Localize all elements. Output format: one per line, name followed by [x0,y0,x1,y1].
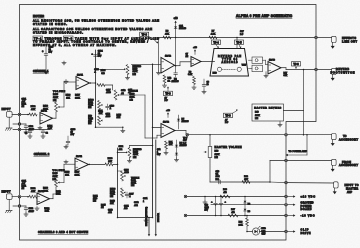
note 3 test points [33,36,159,47]
labels C206 [124,170,129,175]
master reverb pot box [252,104,284,121]
reverb pan body [210,49,249,77]
jack input ch2 [7,194,13,200]
wire master reverb feed [303,70,305,135]
ground ps [203,196,207,204]
labels R106 R107 ch1 [66,94,81,99]
labels C110 [121,90,125,95]
wire ring ch1 [13,123,26,125]
resistor R7 [209,31,217,39]
capacitor C21 [219,196,226,217]
capacitor C104 [92,50,104,57]
label +18 vdc [287,195,315,198]
diode D2 [172,78,180,83]
title ALPHA 6 PRE AMP SCHEMATIC [236,14,293,18]
test point TP-3 [164,86,173,102]
resistor R26 [238,215,248,232]
op-amp U4B ch2 [75,156,89,171]
labels ch2 lower c [108,209,113,214]
test point TP-8 [140,32,159,43]
resistor R12 [162,75,172,87]
wire ring ch2 [13,205,26,207]
node footswitch tap [303,69,305,71]
label effects bus [157,213,160,222]
chassis ground ch2 [5,199,12,212]
wire accessory return [270,161,286,183]
label input ch1 [2,108,11,111]
diode D6 [174,140,187,162]
test point TP-4 [212,40,221,48]
label reverb footswitch [331,68,355,74]
connector power amp input [285,181,288,184]
wire mid coupling row [13,129,50,131]
resistor R203 [43,188,49,193]
connector +18 in [184,195,187,198]
wire U2B output [175,62,192,66]
labels ch2 lower b [101,204,106,209]
op-amp U1 pan driver [186,54,202,67]
wire U4B out [89,164,106,166]
label bass ch2 [110,187,116,198]
resistor R28 [220,189,230,198]
wire to accessory jack [287,134,331,136]
capacitor C9 limiter [174,38,178,78]
reverb pot ch2 [127,145,153,163]
label ground power board [287,201,313,211]
resistor R27 [228,209,238,217]
label reverb pan [218,55,241,64]
connector ground out [285,203,288,206]
bass pot ch1 [98,101,103,110]
jack input to master [333,182,338,194]
wire effects tap ch1 [158,39,160,71]
label clip drive [287,228,311,234]
label TP-7 level [183,138,188,145]
capacitor C102 [24,124,35,134]
label R111 [98,111,103,116]
label to accessory [339,135,358,141]
ground U1A [38,121,42,130]
node pan feed [236,31,244,38]
label channel 1 [33,69,49,73]
notes heading [33,14,45,18]
wire U4A out [50,187,57,199]
supply +18 U2A [166,110,170,118]
resistor R104 [47,125,53,130]
capacitor C12 fb [157,149,161,156]
resistor R17 [284,72,289,77]
wire clip drive [246,231,286,233]
node effects junction D1 [175,37,177,39]
label bass ch1 [88,98,94,109]
label R115 [117,114,121,119]
wire -18 rail [187,215,286,217]
reverb bus arrow [148,217,150,237]
jack from accessory [331,159,336,171]
ground master reverb [278,121,282,127]
effects bus arrow [155,140,157,236]
resistor R21 fb [164,141,173,155]
bass pot ch2 [121,188,126,197]
jack effects line out [331,36,336,48]
ground pan jacks [264,72,268,78]
wire power amp tap [286,134,308,156]
label treble ch2 [131,177,140,187]
label master volume [215,146,242,159]
labels input network ch2 [22,181,27,191]
labels ch2 lower d [124,205,129,210]
labels C204 [119,146,124,151]
labels extra ch2 [110,200,116,205]
label reverb bus [146,206,148,226]
resistor R204 [44,208,50,213]
paper noise overlay [0,0,1,1]
led CR7 [252,226,266,235]
wire accessory send [189,134,286,136]
wire reverb bus to U2B [132,63,162,65]
ground bias ch1 a [62,61,66,65]
wire U1 out to pan [201,61,215,63]
connector reverb footswitch [315,68,318,71]
wire +18 rail [187,196,286,198]
wire master reverb out [284,110,304,112]
supply +18 via CR1 [174,17,187,37]
ground bias ch2 [64,160,68,164]
wire ch1 to mixer [121,95,161,138]
resistor R108 [96,70,113,86]
wire from accessory jack [287,160,331,162]
volume pot ch2 [53,170,66,187]
test point TP-9 [224,109,239,124]
labels C20 C21 [205,204,209,211]
labels C107 [106,89,111,94]
ground tone ch2 [144,218,148,223]
labels C211 [143,198,147,203]
label effects line out [342,37,357,43]
diode D5 [177,115,189,129]
op-amp U1A ch1 [40,110,53,124]
pan plug white [237,64,247,71]
op-amp U1B ch1 [76,74,90,89]
jack reverb footswitch [331,68,336,80]
label input ch2 [2,190,11,193]
labels R206 R207 ch2 [65,171,81,176]
wire reverb send ch1 [95,68,126,70]
schematic dashed boundary [20,5,317,241]
labels C106 ch1 [94,69,99,74]
connector accessory send [285,133,288,136]
resistor R103 [43,105,49,110]
wire volume to U1B [64,82,76,107]
pan output jacks [249,57,263,72]
label to power amp [289,150,308,153]
node master reverb join [303,134,305,136]
label -18 vdc [287,214,314,217]
test point TP-5 [235,40,244,48]
label reverb ch2 [133,149,142,159]
labels C210 [134,202,139,207]
wire input ch2 [12,196,29,198]
chassis ground ch1 [5,117,12,130]
resistor R202 [27,188,37,198]
node reverb bus top [152,64,154,66]
resistor R208 ch2 [105,158,118,166]
resistor R8 [188,71,196,89]
wire volume to U4B [64,164,75,182]
resistor R102 [27,106,37,116]
label reverb ch1 [133,66,142,76]
node master volume tap [209,134,211,136]
labels C114 [106,114,111,119]
test point TP-6 [292,62,301,69]
connector -18 in [184,214,187,217]
connector input ch1 ring [18,123,21,126]
connector mixer out [186,133,189,136]
op-amp U4A ch2 [37,191,50,205]
note 1 resistors [33,19,159,26]
pan plug red [213,67,222,74]
wire ground rail [211,204,286,206]
wire pan feed drop [236,38,238,49]
labels input network ch1 [22,98,27,108]
connector input ch1 tip [18,113,21,116]
connector +18 out [285,195,288,198]
capacitor C103 bias [42,44,54,74]
op-amp U2B [161,56,175,73]
volume pot ch1 [53,91,66,112]
wire bus to U2A [152,127,161,128]
label input to master [345,185,359,194]
capacitor C20 [211,196,217,217]
wire tone bus ch2 [117,148,119,218]
label channels 3 4 [38,231,88,234]
ground tone ch1 [121,127,125,132]
connector clip drive [285,230,288,233]
note 2 capacitors [33,27,152,34]
capacitor C112 [25,130,32,139]
capacitor C208 [64,129,76,149]
labels ch2 lower a [93,195,98,202]
connector effects out [315,36,318,39]
wire master out [210,181,271,183]
connector input ch2 tip [18,195,21,198]
wire to footswitch jack [317,69,331,71]
wire to master jack [287,182,333,184]
wire U2A out [175,131,186,135]
wire input ch1 [12,114,29,116]
label channel 2 [34,152,50,156]
label mid ch1 [88,115,94,125]
resistor R6 [163,31,171,39]
labels R205 C203 [56,191,61,196]
node U2B out [175,65,177,67]
wire pan return [263,60,269,64]
capacitor C8 [202,62,209,94]
label treble ch1 [130,91,139,102]
connector accessory return [285,159,288,162]
wire tone bus ch1 [95,50,97,127]
connector -18 out [285,214,288,217]
resistor R22 [242,176,250,183]
ground effects tap [156,71,160,75]
wire tone bottom ch1 [95,126,124,128]
jack to accessory [331,134,336,146]
connector mid row [18,128,21,131]
jack input ch1 [7,112,13,118]
ground bias ch1 b [64,80,68,84]
wire reverb bus [152,64,154,217]
wire reverb footswitch [281,68,316,70]
wire reverb send ch2 [117,151,128,153]
labels C111 [128,90,132,95]
capacitor C207 [125,192,133,198]
capacitor C13 [216,171,221,184]
reverb pot ch1 [125,64,131,80]
capacitor C202 [24,206,35,216]
wire effects send bus [159,38,317,40]
wire tone bottom ch2 [117,217,154,219]
op-amp U2A [161,121,175,137]
op-amp U3 [268,59,281,74]
master volume pot [204,135,212,182]
wire to effects jack [317,37,331,39]
label from accessory [339,161,358,167]
capacitor C113 [41,130,48,139]
treble pot ch2 [118,171,126,181]
mid pot ch1 [98,116,103,125]
wire U1B out [90,82,97,84]
connector input ch2 ring [18,205,21,208]
supply +13 pan driver [193,47,197,55]
wire power amp input [270,181,286,184]
diode D8 [244,196,250,217]
treble pot ch1 [113,85,122,100]
capacitor C108 [106,104,114,110]
ground U4A [35,207,39,211]
wire U1A out [53,112,57,118]
